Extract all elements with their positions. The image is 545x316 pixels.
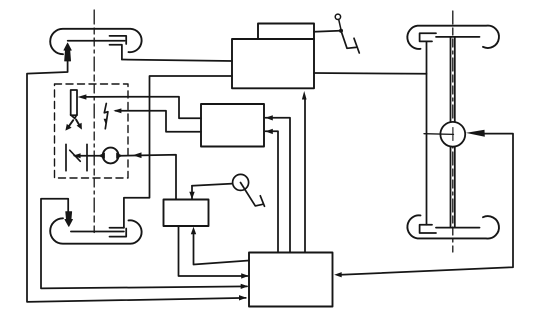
wire roller feedback loop bbox=[341, 134, 513, 275]
measuring block (small mid) bbox=[164, 200, 209, 227]
wire top cartridge arrow to outer loop bbox=[27, 61, 246, 302]
aperture bar right bbox=[86, 144, 88, 171]
exposure computer block bbox=[201, 104, 264, 147]
roller drive arrow (bold wedge) bbox=[466, 130, 485, 137]
manual switch upper: terminal stem bbox=[339, 19, 341, 28]
arrowhead up into main block bbox=[302, 91, 307, 100]
film cartridge top-right slit bbox=[436, 36, 480, 38]
arrowhead on lens control bbox=[133, 152, 142, 158]
film cartridge bottom-right lip bbox=[420, 225, 436, 233]
film cartridge top-left outer shell bbox=[50, 29, 141, 54]
arrowhead into exposure computer lower bbox=[265, 129, 273, 134]
wire cartridge exit to main block bbox=[122, 60, 232, 62]
lamp ray left bbox=[69, 120, 74, 126]
aperture bar left bbox=[65, 144, 67, 171]
arrowhead down into small mid block bbox=[189, 192, 194, 200]
arrowhead lens right outward bbox=[116, 153, 123, 159]
film web upper right edge bbox=[454, 37, 456, 122]
roller axis tick bbox=[424, 133, 454, 136]
film cartridge top-left lip upper bbox=[110, 36, 127, 44]
film feed arrow bottom (bold) bbox=[65, 212, 73, 227]
manual switch lower: lever bbox=[241, 183, 263, 206]
film cartridge bottom-left outer shell bbox=[50, 218, 141, 243]
lamp base V bbox=[71, 115, 77, 119]
flash bolt arrowhead bbox=[104, 119, 108, 124]
aperture blade diagonal bbox=[70, 150, 81, 161]
arrowhead into bottom block bbox=[241, 273, 249, 278]
lamp ray right bbox=[76, 120, 80, 126]
film cartridge bottom-right slit bbox=[436, 227, 480, 229]
film cartridge top-right outer shell bbox=[407, 26, 499, 49]
film cartridge bottom-left lip lower bbox=[110, 229, 127, 237]
wire small mid block to bottom block bbox=[179, 226, 248, 276]
wire long vertical link bbox=[124, 76, 232, 228]
frame vertical left of right assembly bbox=[426, 41, 428, 224]
arrowhead into control block bottom-left bbox=[239, 295, 247, 300]
wire lens control bbox=[121, 155, 176, 200]
wire bottom cartridge feed bbox=[41, 199, 247, 289]
arrowhead into control block bbox=[241, 284, 249, 289]
roller centre dash bbox=[452, 128, 454, 141]
film cartridge bottom-left lip upper bbox=[110, 227, 124, 229]
centerline left optical axis bbox=[93, 10, 95, 233]
arrowhead lens left outward bbox=[98, 153, 105, 159]
arrowhead at aperture blade bbox=[73, 153, 81, 158]
wire exposure computer upper feedback bbox=[266, 118, 291, 253]
film cartridge bottom-right outer shell bbox=[407, 215, 499, 238]
arrowhead into bottom block right bbox=[334, 272, 342, 277]
manual switch lower: drop wire bbox=[191, 186, 193, 199]
main control block bbox=[232, 39, 314, 88]
wire flash control bbox=[116, 111, 202, 132]
manual switch lower: knob circle bbox=[233, 174, 249, 190]
wire aperture to lens bbox=[75, 155, 101, 157]
wire main block to right assembly bbox=[314, 72, 427, 75]
film feed arrow top (bold) bbox=[64, 43, 71, 61]
transport roller bbox=[440, 122, 465, 147]
control block (bottom) bbox=[249, 253, 333, 307]
lamp tube bbox=[71, 90, 77, 115]
film cartridge top-left lip lower bbox=[110, 45, 122, 60]
wire bottom block to small mid block bbox=[194, 234, 250, 265]
centerline right film axis bbox=[452, 11, 454, 252]
flash bolt bbox=[104, 104, 108, 129]
film web lower left edge bbox=[450, 147, 452, 228]
wire lamp control bbox=[84, 97, 201, 119]
film cartridge bottom-left slit bbox=[71, 231, 124, 233]
wire exposure computer lower feedback bbox=[266, 131, 279, 252]
arrowhead up into small mid block bbox=[191, 227, 196, 235]
manual switch lower: crossbar bbox=[260, 196, 264, 207]
film web upper left edge bbox=[450, 37, 452, 122]
film web lower right edge bbox=[454, 147, 456, 228]
wire bottom block to main block bbox=[304, 98, 306, 253]
arrowhead into exposure computer upper bbox=[265, 115, 273, 120]
manual switch upper: terminal circle bbox=[335, 14, 340, 19]
manual switch lower: stem wire bbox=[192, 184, 233, 186]
program block (small top box) bbox=[258, 24, 314, 40]
arrowhead at lamp bbox=[78, 94, 87, 99]
wire program block to switch bbox=[314, 30, 339, 33]
manual switch upper: pivot dot bbox=[339, 29, 343, 33]
dashed exposure unit box bbox=[55, 84, 129, 178]
film cartridge top-left slit bbox=[68, 40, 125, 42]
manual switch upper: crossbar bbox=[354, 38, 359, 53]
film cartridge top-right lip bbox=[420, 33, 436, 41]
lens bbox=[103, 148, 119, 164]
manual switch upper: lever bbox=[341, 31, 356, 49]
arrowhead at flash bbox=[113, 108, 121, 113]
